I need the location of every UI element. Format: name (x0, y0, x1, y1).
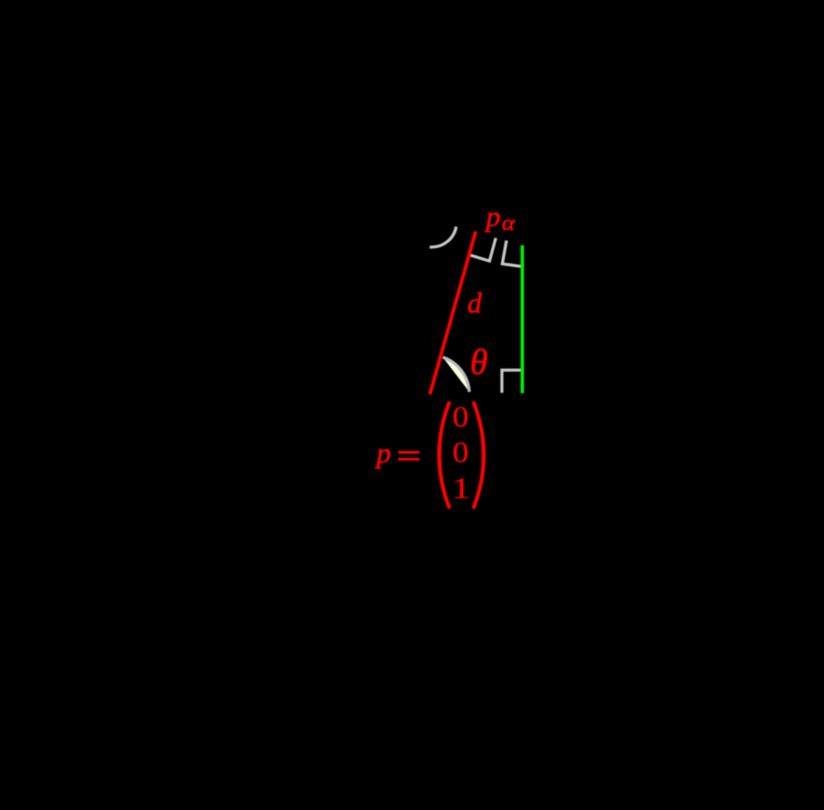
plane line (green) (521, 245, 524, 393)
angle theta filled segment (443, 357, 470, 392)
line d (red) (430, 231, 476, 394)
svg-text:p: p (375, 438, 392, 470)
right angle marker at top of plane (502, 241, 522, 267)
svg-text:p: p (484, 201, 501, 233)
left parenthesis (439, 403, 449, 507)
arc at p_alpha (430, 227, 457, 247)
right angle marker at p_alpha on line d (469, 238, 496, 261)
right parenthesis (474, 403, 484, 507)
svg-text:0: 0 (453, 437, 469, 469)
angle theta arc stroke (443, 357, 470, 392)
right angle marker at bottom of plane (502, 370, 523, 393)
svg-text:α: α (502, 210, 516, 235)
svg-text:θ: θ (470, 342, 488, 382)
svg-text:d: d (467, 287, 482, 319)
svg-text:1: 1 (452, 473, 471, 505)
svg-text:0: 0 (453, 402, 469, 434)
equals sign (398, 451, 419, 454)
